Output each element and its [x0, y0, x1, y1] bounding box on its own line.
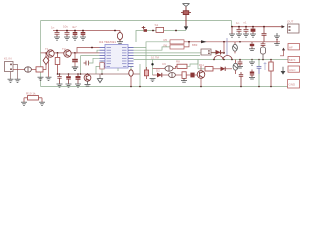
resistor R3 [100, 61, 104, 74]
svg-text:R11: R11 [199, 63, 204, 67]
inductor L1 [214, 56, 232, 60]
svg-text:S1: S1 [155, 23, 159, 27]
ground C11 [72, 67, 78, 70]
arrow net into board [184, 26, 188, 30]
wire GND left bus [40, 21, 42, 87]
ground R10 right [39, 102, 45, 105]
wire C23 to R8 [173, 66, 177, 68]
capacitor C5 [237, 27, 242, 34]
capacitor C8 [262, 27, 267, 42]
power flag VCC [183, 4, 190, 7]
wire pin10 long [134, 55, 201, 57]
transistor Q3 [84, 74, 91, 81]
svg-text:4u7: 4u7 [72, 25, 77, 29]
wire C24 to R9 [175, 74, 182, 76]
capacitor C26 [239, 72, 243, 87]
arrow netA out [282, 48, 285, 51]
op-amp U1 body [105, 45, 128, 69]
node junction net top-center [152, 30, 154, 32]
wire x146 down [145, 48, 147, 71]
ground C19 [237, 66, 243, 68]
capacitor C14 polarized [66, 74, 71, 84]
wire J1 upper pin [13, 65, 18, 80]
net label box x290 mid [288, 66, 300, 72]
ground C13 [57, 84, 63, 87]
svg-text:AGC: AGC [289, 68, 296, 72]
capacitor C17 [261, 42, 266, 47]
svg-text:1n: 1n [51, 26, 55, 30]
wire Q1 emitter ground [48, 57, 50, 77]
wire green vertical x140 [139, 64, 141, 87]
ground D6 row [150, 78, 156, 81]
resistor R9 [182, 72, 186, 79]
svg-text:R5: R5 [164, 38, 168, 42]
wire to diode [43, 65, 46, 70]
diode D2 varicap [43, 56, 49, 64]
net label box bottom right [288, 80, 300, 88]
wire rail top-left [53, 30, 120, 32]
fuse F2 [181, 11, 191, 15]
capacitor C22 polarized [250, 70, 254, 78]
wire R6 to node [184, 42, 189, 47]
net label box netA [288, 44, 300, 50]
svg-text:1n: 1n [236, 21, 240, 25]
capacitor C10 input [25, 67, 32, 72]
svg-text:OUT: OUT [287, 20, 294, 24]
transistor Q5 [197, 71, 205, 79]
ground arrow x100 [97, 74, 102, 83]
wire power feed [185, 7, 187, 27]
capacitor C25 polarized [186, 73, 197, 78]
wire pin2 stub [97, 50, 100, 53]
node junction x224 top [223, 41, 225, 43]
ground C22 [249, 77, 255, 79]
ground Q1 [46, 77, 52, 80]
capacitor C6 [244, 27, 249, 34]
ground J1 body [8, 79, 14, 82]
capacitor C11 polarized [72, 53, 78, 67]
wire net top-center [136, 31, 186, 43]
transistor Q2 [64, 50, 71, 57]
ground C16 [249, 49, 255, 51]
transistor Q1 [47, 50, 54, 57]
capacitor C20 [257, 60, 262, 75]
wire R8 right [187, 60, 198, 67]
wire step to pin1 [75, 48, 100, 53]
node junction diamond top [45, 52, 47, 54]
node junction netA x240 [239, 41, 241, 43]
wire J1 body ground [10, 72, 12, 80]
capacitor C21 [259, 62, 266, 87]
svg-text:10.7M: 10.7M [151, 55, 159, 59]
pin 1-7 left U1 [100, 48, 106, 67]
wire green vertical x80 [80, 56, 82, 74]
wire netA to label [280, 50, 284, 56]
crystal X1 [129, 66, 133, 86]
diode D4 [216, 50, 225, 55]
wire blue vertical x227 [226, 38, 228, 56]
svg-text:10u: 10u [63, 25, 68, 29]
ground netA x277 [274, 39, 280, 46]
ground C1 [54, 37, 60, 40]
wire V+ top bus [41, 20, 232, 22]
wire C12 to pin5 [88, 58, 99, 63]
ground C2 [64, 37, 70, 40]
svg-text:MPX: MPX [289, 58, 296, 62]
svg-text:IC1 TDA7021: IC1 TDA7021 [99, 40, 116, 44]
node junctions rail pin9 [213, 59, 272, 61]
resistor R6 [170, 45, 184, 49]
ground F1 [117, 42, 123, 44]
capacitor C19 [238, 60, 243, 67]
connector J1 [5, 62, 14, 72]
node junctions rail top-left [56, 30, 84, 32]
pin 8-14 right U1 [128, 48, 134, 67]
diode D6 [153, 73, 162, 78]
wire pin12 to R6 [134, 47, 171, 50]
pin name texts U1 [107, 48, 127, 67]
diode D5 [233, 42, 238, 54]
wire x224 vertical [223, 42, 225, 53]
diode D1 on net [142, 26, 147, 32]
node junction C11 top [74, 52, 76, 54]
ground R10 left [21, 102, 27, 105]
wire Q5 emitter [200, 78, 202, 86]
ground C4 [80, 37, 86, 40]
wire bottom rail left [58, 73, 141, 75]
capacitor C15 polarized [76, 74, 81, 84]
wire input 2 [31, 69, 36, 71]
node junctions bottom rail [57, 73, 103, 75]
wire J3 to D4 [211, 51, 216, 53]
wire row y68.8 [198, 60, 205, 69]
connector J2 [288, 24, 300, 33]
resistor R5 [170, 40, 184, 44]
svg-text:R6: R6 [164, 43, 168, 47]
svg-text:L1: L1 [221, 51, 225, 55]
ground C14 [66, 84, 72, 87]
ground rail x252 [249, 60, 255, 66]
wire R11 to D7 [213, 68, 221, 70]
capacitor C24 [169, 73, 176, 78]
wire green vertical x152 [152, 60, 154, 76]
ground C3 [72, 37, 78, 40]
wire green pin4 [81, 55, 100, 57]
ground R9 [181, 78, 187, 82]
ground C6 [243, 34, 249, 37]
ground C5 [236, 34, 242, 37]
svg-text:AF: AF [289, 45, 293, 49]
wire net A [184, 41, 280, 43]
svg-text:K1 IN: K1 IN [4, 57, 12, 61]
ground Q3 [85, 81, 91, 86]
resistor R8 [177, 64, 187, 68]
node junction x115 [114, 30, 116, 32]
jumper JP1 [156, 27, 164, 32]
svg-text:R10 1k: R10 1k [26, 92, 36, 96]
svg-text:BB9: BB9 [192, 43, 198, 47]
wire rail top-right [232, 26, 285, 28]
wire pin13 to R5 [134, 42, 171, 48]
wire base rail left [41, 52, 100, 54]
resistor R4 [144, 67, 148, 79]
svg-text:R8: R8 [176, 60, 180, 64]
resistor R7 [269, 60, 273, 87]
node junction x224 bottom [223, 52, 225, 54]
ground arrow AGC [281, 67, 286, 75]
wire Q5 collector [200, 66, 202, 71]
wire GND bottom bus [41, 86, 297, 88]
connector J3 [201, 49, 211, 55]
ground stub x232 [229, 27, 235, 38]
diode D8 vertical [233, 60, 238, 75]
capacitor C2 [65, 31, 70, 37]
diode D7 [221, 67, 233, 72]
svg-text:n1: n1 [244, 21, 248, 25]
resistor R10 [24, 96, 42, 102]
svg-text:GND: GND [289, 82, 297, 86]
node junction pin1 wire [91, 47, 93, 49]
node junction netA [188, 41, 190, 43]
node junction x152 black [151, 63, 153, 65]
wire bus stub right [231, 21, 233, 28]
ground J2 [274, 33, 280, 39]
wire diode up [45, 53, 47, 57]
crystal X2 [260, 47, 265, 60]
svg-text:D2: D2 [156, 69, 160, 73]
resistor R11 [205, 67, 213, 71]
capacitor C23 [153, 66, 174, 71]
capacitor C4 polarized [81, 31, 86, 37]
node junction x176 [175, 30, 177, 32]
wire input [13, 69, 25, 71]
ground bus left mark [38, 77, 44, 80]
node junction R2 top [57, 52, 59, 54]
net label box pin9 [288, 56, 300, 62]
resistor R1 [36, 67, 43, 72]
capacitor C13 [57, 74, 61, 84]
wire pin11 long [134, 52, 225, 54]
svg-text:C9: C9 [162, 62, 166, 66]
capacitor C7 polarized [251, 27, 256, 34]
capacitor C1 [55, 31, 60, 37]
wire U1 bottom stub [117, 68, 119, 71]
capacitor C12 [84, 61, 89, 66]
arrow netA [201, 40, 207, 43]
capacitor C3 polarized [73, 31, 78, 37]
wire D6 to C24 [162, 74, 169, 76]
ground J1 pin2 [15, 79, 21, 82]
wire pin7 left [96, 66, 100, 74]
fuse F1 [117, 31, 122, 42]
ground C7 [250, 34, 256, 37]
arrow output [282, 25, 285, 28]
wire pin9 long rail [134, 59, 289, 61]
node junctions rail top-right [231, 26, 265, 28]
capacitor C16 polarized [250, 42, 254, 49]
resistor R2 [55, 53, 60, 74]
node junctions bottom bus [130, 86, 272, 88]
ground C15 [75, 84, 81, 87]
